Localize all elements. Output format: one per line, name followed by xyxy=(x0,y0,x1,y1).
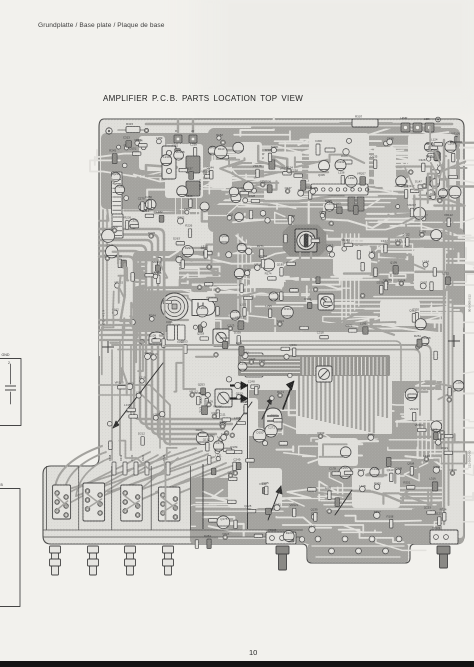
connector K2 xyxy=(83,483,105,521)
wire wing diagonal feeds xyxy=(60,452,150,497)
IC strip with pin holes (top band) xyxy=(311,184,368,195)
white pocket right-top xyxy=(408,134,456,210)
bold arrow right B xyxy=(230,397,241,399)
etched channels zone 1 xyxy=(233,213,265,222)
components scatter zone 18 xyxy=(418,185,427,188)
svg-text:212-500-0-00: 212-500-0-00 xyxy=(468,450,472,468)
resistor R307 xyxy=(340,122,392,124)
wire left L-bundle xyxy=(99,229,200,444)
capacitors C316 C317 xyxy=(167,325,175,340)
capacitor C309 dark pair xyxy=(348,197,355,211)
trimmer pot Q302 (metal can) xyxy=(283,225,326,256)
copper pour bottom-center xyxy=(190,478,306,544)
board bottom edge band xyxy=(43,536,303,538)
channel bundle bottom-center xyxy=(196,497,298,499)
etched channels zone 5 xyxy=(284,453,316,457)
components scatter zone 11 xyxy=(267,185,272,193)
white component islands xyxy=(165,144,203,198)
wire comb fan verticals xyxy=(298,376,300,416)
wire top feeds xyxy=(177,120,179,138)
pin dark right xyxy=(437,546,450,554)
connector K3 xyxy=(121,485,143,521)
resistor row lower-left xyxy=(112,462,116,475)
wire squiggles sparse zones xyxy=(102,292,114,375)
PCB board outline xyxy=(43,119,464,563)
copper pour right column xyxy=(298,228,464,332)
registration cross mid-right xyxy=(448,335,460,347)
wire bus above comb xyxy=(112,345,431,420)
channel bundle center V xyxy=(237,234,239,324)
pad J1 xyxy=(174,135,182,143)
leader arrow comb (bold) xyxy=(283,385,292,409)
components scatter zone 31 xyxy=(197,396,200,405)
trimmer VR304 (left of comb) xyxy=(213,329,229,346)
components scatter zone 14 xyxy=(217,516,230,529)
comb fan backing xyxy=(296,376,392,434)
bottom module slots xyxy=(46,466,48,530)
pin dark left xyxy=(276,546,289,554)
connector K4 xyxy=(158,487,180,521)
comb left end box xyxy=(245,353,263,377)
wire mid-left horizontals xyxy=(99,319,188,321)
copper pour top band xyxy=(208,128,460,232)
svg-text:R307: R307 xyxy=(355,115,363,119)
channel bundle mid-left xyxy=(138,261,224,263)
VR108 box xyxy=(266,532,296,544)
pin plug x=55 xyxy=(50,546,61,553)
channel bundle right column V xyxy=(341,234,343,322)
copper pour bottom dip xyxy=(308,544,408,562)
wire lower-left diagonals xyxy=(119,340,121,455)
etched channels zone 3 xyxy=(192,284,236,291)
capacitor C304 dark xyxy=(186,181,200,196)
copper pour right-lower xyxy=(303,381,464,544)
leader arrow lower-left xyxy=(113,363,163,428)
trimmer VR105 xyxy=(215,389,232,407)
components scatter zone 13 xyxy=(265,425,277,437)
trimmer VR301 xyxy=(318,294,334,310)
components scatter zone 12 xyxy=(269,292,278,301)
wire top edge bus xyxy=(146,123,452,126)
round can L301 xyxy=(161,293,188,320)
svg-text:B: B xyxy=(1,483,4,487)
section divider vertical line A xyxy=(247,384,249,529)
copper pour center-lower xyxy=(249,383,306,480)
svg-text:00-0-005-S12: 00-0-005-S12 xyxy=(468,294,472,312)
svg-text:2: 2 xyxy=(8,361,10,365)
channel bundle right-lower H xyxy=(312,487,452,489)
etched channels zone 6 xyxy=(428,493,473,512)
components scatter zone 16 xyxy=(136,393,141,398)
section divider vertical line B xyxy=(202,464,204,529)
channel bundle top band A xyxy=(212,148,440,156)
left edge lower box xyxy=(0,483,20,607)
wire overlay lower right xyxy=(316,492,351,499)
vertical ladder strip left column xyxy=(112,172,123,214)
transistor Q305 xyxy=(319,161,330,172)
connector comb bus bar xyxy=(238,355,390,376)
channel bundle right column H xyxy=(332,299,452,301)
leader arrow right-bottom xyxy=(268,486,281,520)
wire wing entry curves xyxy=(55,446,102,488)
channel bundle top band B xyxy=(222,189,408,191)
leader arrow comb small xyxy=(262,398,272,419)
trimmer VR303 xyxy=(316,366,332,382)
bold arrow right A xyxy=(230,384,241,386)
copper pour center xyxy=(213,228,305,332)
VR109 box xyxy=(430,530,458,544)
channel bundle right-lower V xyxy=(417,390,419,466)
white band above comb xyxy=(99,332,429,356)
etched channels zone 4 xyxy=(157,254,262,264)
capacitor C303 dark xyxy=(186,156,200,173)
leader arrow center xyxy=(232,402,252,430)
etched channels zone 7 xyxy=(144,137,179,148)
etched channels zone 8 xyxy=(219,536,279,538)
white pocket below comb xyxy=(203,378,303,390)
pin plug x=130 xyxy=(125,546,136,553)
resistor pair above IC strip xyxy=(316,144,320,155)
components scatter zone 17 xyxy=(386,457,391,466)
wire overlay mid row xyxy=(343,237,420,244)
wire left column verticals xyxy=(102,210,104,330)
board halftone overlay xyxy=(43,119,464,563)
bracket plate Q304 xyxy=(162,146,176,179)
pad J2 xyxy=(189,135,197,143)
transistor VR104 dome xyxy=(264,408,282,429)
pin plug x=93 xyxy=(88,546,99,553)
fiducial target circle xyxy=(106,128,112,134)
wire overlay top band xyxy=(220,158,252,184)
pin plug x=168 xyxy=(163,546,174,553)
wire channel pair below top pads xyxy=(175,142,177,224)
copper pour top-left shoulder xyxy=(101,133,214,209)
vertical ladder strip lower xyxy=(112,214,123,238)
resistor R315 top-left xyxy=(118,129,146,131)
etched channels zone 2 xyxy=(453,325,474,345)
transistor D306 (half-round) xyxy=(149,332,164,344)
leader arrow bottom-center xyxy=(335,490,352,515)
registration cross top-right xyxy=(450,136,462,148)
wire slot feeds xyxy=(60,448,196,492)
node GND terminal box (left edge) xyxy=(0,353,21,426)
wire right margin verticals xyxy=(443,140,445,524)
svg-text:GND: GND xyxy=(2,353,10,357)
connector K1 xyxy=(53,485,71,519)
dip pads xyxy=(315,536,321,542)
copper pour mid-left xyxy=(133,251,230,339)
dome component right of can xyxy=(192,300,215,316)
components scatter zone 15 xyxy=(200,202,209,211)
registration cross mid-left xyxy=(102,341,114,353)
white pocket right margin xyxy=(442,312,463,538)
